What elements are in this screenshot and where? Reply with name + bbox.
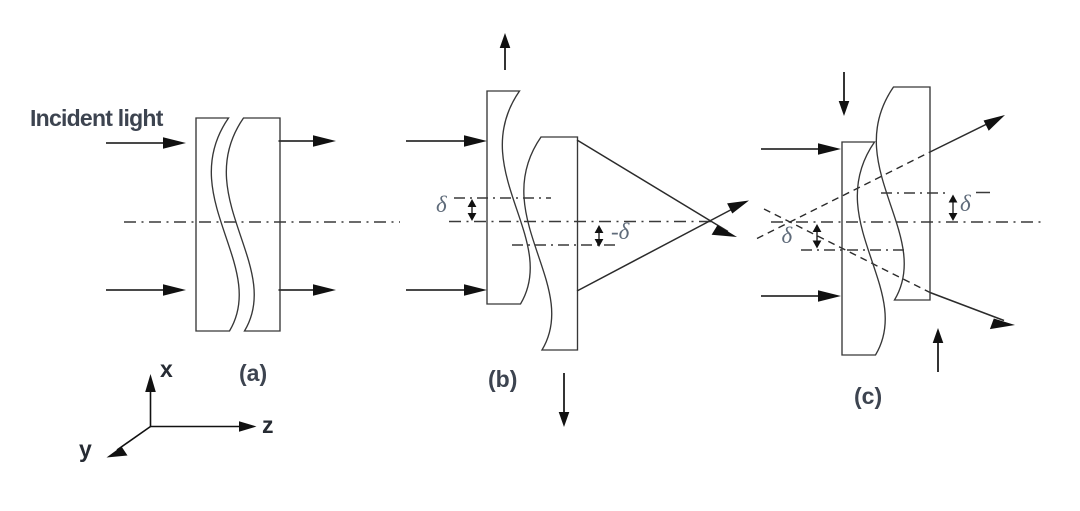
wire: incident ray bottom (c) xyxy=(761,290,841,302)
dim arrow delta (b) xyxy=(468,199,477,221)
lens element B1 (left, type L, shifted up) xyxy=(487,91,530,304)
move arrow up (b left element) xyxy=(500,33,511,70)
svg-text:Incident light: Incident light xyxy=(30,105,164,131)
svg-text:(a): (a) xyxy=(239,360,267,386)
wire: virtual ray dashed to lower exit (c) xyxy=(764,209,930,293)
svg-text:(c): (c) xyxy=(854,383,882,409)
move arrow down (c left element) xyxy=(839,72,850,116)
svg-text:z: z xyxy=(262,412,274,438)
node: center line of shifted-up element (c) xyxy=(881,192,990,195)
wire: output ray top (a) xyxy=(279,135,337,147)
wire: incident ray bottom (a) xyxy=(106,284,186,296)
svg-text:(b): (b) xyxy=(488,366,517,392)
svg-text:-δ: -δ xyxy=(611,219,630,244)
node: center line of shifted-down element (c) xyxy=(801,249,905,251)
wire: converging ray from top (b) xyxy=(577,140,737,237)
wire: incident ray top (b) xyxy=(406,135,487,147)
wire: incident ray top (a) xyxy=(106,137,186,149)
move arrow down (b right element) xyxy=(559,373,570,427)
svg-text:x: x xyxy=(160,356,173,382)
node: optical axis (b) xyxy=(449,221,712,223)
coordinate axes: y-axis arrow xyxy=(107,427,151,458)
wire: converging ray from bottom (b) xyxy=(577,201,749,292)
node: optical axis (a) xyxy=(124,221,400,223)
lens element A1 (left, type L) xyxy=(196,118,239,331)
wire: incident ray bottom (b) xyxy=(406,284,487,296)
wire: diverging ray lower solid (c) xyxy=(930,293,1015,330)
node: center line of shifted-up element (b) xyxy=(454,197,551,199)
dim arrow delta upper (c) xyxy=(949,195,958,222)
wire: incident ray top (c) xyxy=(761,143,841,155)
lens element C1 (left, type L, shifted down) xyxy=(842,142,885,355)
node: optical axis (c) xyxy=(771,221,1046,223)
coordinate axes: z-axis arrow xyxy=(151,421,257,432)
lens element B2 (right, type R, shifted down) xyxy=(524,137,578,350)
svg-text:δ: δ xyxy=(436,192,447,217)
wire: virtual ray dashed to upper exit (c) xyxy=(757,152,930,239)
lens element C2 (right, type R, shifted up) xyxy=(876,87,930,300)
wire: diverging ray upper solid (c) xyxy=(930,115,1005,152)
wire: output ray bottom (a) xyxy=(279,284,337,296)
lens element A2 (right, type R) xyxy=(226,118,280,331)
node: center line of shifted-down element (b) xyxy=(512,244,620,246)
svg-text:y: y xyxy=(79,436,92,462)
dim arrow -delta (b) xyxy=(595,225,604,247)
dim arrow delta lower (c) xyxy=(813,224,822,249)
svg-text:δ: δ xyxy=(960,191,971,216)
coordinate axes: x-axis arrow xyxy=(145,374,156,427)
move arrow up (c right element) xyxy=(933,328,944,372)
svg-text:δ: δ xyxy=(782,223,793,248)
